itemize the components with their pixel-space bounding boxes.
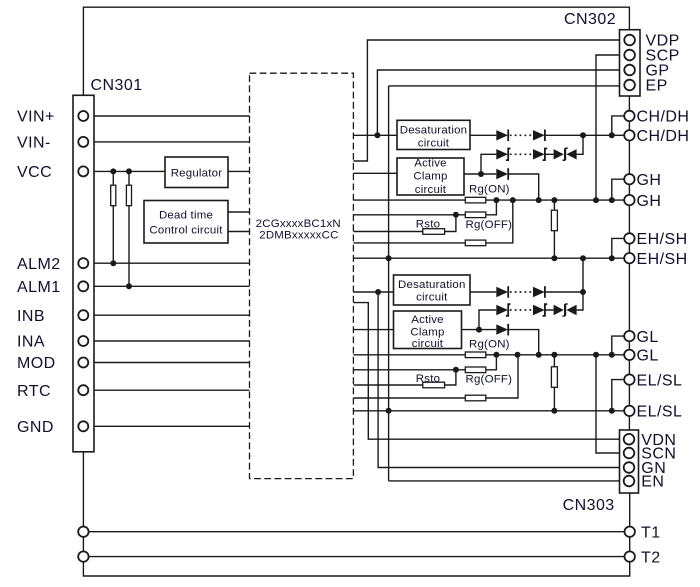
resistor gate shunt ch2 — [551, 367, 557, 388]
wire RTC — [83, 389, 249, 391]
svg-text:Rg(OFF): Rg(OFF) — [466, 374, 513, 386]
wire EN — [389, 480, 620, 482]
svg-text:Rsto: Rsto — [416, 373, 440, 385]
svg-text:ALM1: ALM1 — [17, 279, 61, 296]
wire EL/SL bracket — [612, 380, 630, 411]
svg-text:GL: GL — [637, 348, 659, 365]
svg-text:ALM2: ALM2 — [17, 256, 61, 273]
wire dead time out 2 — [228, 231, 250, 233]
wire Rsto row ch1 — [353, 215, 456, 232]
resistor Rg(OFF) ch2 — [465, 367, 486, 373]
pin circles CN302 — [624, 35, 635, 46]
wire VIN- — [83, 141, 249, 143]
svg-text:Clamp: Clamp — [410, 326, 444, 338]
pin circles CN301 — [78, 111, 88, 121]
svg-text:GH: GH — [637, 193, 662, 210]
svg-text:Control circuit: Control circuit — [149, 225, 223, 237]
resistor Rg(ON) ch1 — [465, 197, 486, 203]
wire EP emitter rail — [389, 86, 620, 481]
connector CN303 — [620, 430, 639, 493]
svg-text:EL/SL: EL/SL — [637, 372, 683, 389]
wire Rsto row ch2 — [353, 370, 456, 385]
zener ch1 a — [496, 149, 510, 161]
wire GND — [83, 425, 249, 427]
svg-text:EL/SL: EL/SL — [637, 404, 683, 421]
svg-text:circuit: circuit — [415, 184, 447, 196]
wire zener row ch2 — [479, 292, 583, 330]
wire T1 — [83, 531, 629, 533]
dotted link desat ch1 — [510, 134, 533, 136]
junction dots ch1 top — [110, 168, 116, 174]
diode desat ch2 b — [533, 286, 545, 298]
svg-text:Active: Active — [411, 314, 443, 326]
wire active clamp ch2 input — [353, 329, 393, 331]
svg-text:Dead time: Dead time — [159, 209, 213, 221]
svg-text:CN302: CN302 — [564, 11, 616, 28]
zener ch2 b — [533, 304, 547, 316]
svg-text:EH/SH: EH/SH — [637, 231, 688, 248]
wire module border bottom — [83, 452, 629, 576]
wire VDN — [353, 303, 619, 440]
wire desaturation ch1 input — [353, 134, 397, 136]
wire active clamp ch2 output — [462, 330, 539, 355]
wire GH row Rg(ON) ch1 — [353, 199, 629, 201]
wire T2 — [83, 556, 629, 558]
zener ch1 b — [533, 149, 547, 161]
svg-text:GL: GL — [637, 329, 659, 346]
dotted link desat ch2 — [510, 291, 533, 293]
resistor Rg(OFF)2 ch1 — [465, 240, 486, 246]
wire Rg(OFF) row ch1 — [353, 200, 496, 215]
wire zener row ch1 — [481, 135, 583, 174]
resistor R302 — [126, 185, 131, 206]
svg-text:CH/DH: CH/DH — [637, 109, 690, 126]
wire Rg shunt ch1 — [553, 200, 555, 258]
wire VDP — [353, 40, 619, 161]
connector CN301 — [73, 95, 94, 452]
resistor Rsto ch2 — [423, 382, 445, 388]
wire Rg(OFF) row ch2 — [353, 355, 496, 370]
connector CN302 — [620, 30, 641, 96]
svg-text:Desaturation: Desaturation — [398, 279, 466, 291]
wire SCN — [596, 355, 620, 453]
wire MOD — [83, 362, 249, 364]
zener pair ch1 — [554, 148, 577, 160]
wire EH/SH row — [353, 257, 629, 259]
wire module border top — [83, 7, 629, 95]
svg-text:Desaturation: Desaturation — [400, 125, 468, 137]
block Active Clamp circuit ch2 — [394, 311, 462, 349]
junction dots ch2 — [375, 289, 381, 295]
zener pair ch2 — [554, 304, 577, 316]
resistor R301 — [111, 185, 116, 206]
wire GL bracket — [612, 336, 630, 355]
dotted link zener ch1 — [510, 153, 533, 155]
zener ch2 a — [496, 304, 510, 316]
svg-text:MOD: MOD — [17, 355, 56, 372]
diode desat ch2 a — [496, 286, 508, 298]
block Desaturation circuit ch2 — [394, 275, 471, 305]
wire GN — [378, 292, 619, 468]
IC dashed outline 2CGxxxxBC1xN — [250, 73, 354, 478]
svg-text:Clamp: Clamp — [413, 171, 447, 183]
pin circles T1 T2 — [78, 527, 88, 537]
wire ALM1 — [83, 285, 249, 287]
svg-text:GH: GH — [637, 172, 662, 189]
diode desat ch1 b — [533, 130, 545, 142]
svg-text:Rg(ON): Rg(ON) — [469, 338, 510, 350]
svg-text:Active: Active — [414, 158, 446, 170]
wire second Rg(OFF) row ch1 — [353, 200, 512, 243]
svg-text:2DMBxxxxxCC: 2DMBxxxxxCC — [259, 230, 338, 242]
wire desaturation ch2 input — [353, 291, 393, 293]
block Desaturation circuit ch1 — [397, 120, 470, 149]
block Regulator — [165, 157, 228, 188]
pin circles right bus — [624, 111, 634, 121]
svg-text:GND: GND — [17, 419, 54, 436]
svg-text:EH/SH: EH/SH — [637, 251, 688, 268]
diode clamp ch1 — [496, 168, 508, 180]
wire GP — [377, 70, 619, 135]
wire VIN+ — [83, 115, 249, 117]
svg-text:CH/DH: CH/DH — [637, 128, 690, 145]
wire desaturation ch1 output row — [470, 134, 629, 136]
svg-text:CN303: CN303 — [563, 497, 615, 514]
svg-text:INA: INA — [17, 334, 45, 351]
wire SCP — [596, 55, 620, 200]
diode desat ch1 a — [496, 130, 508, 142]
dotted link zener ch2 — [510, 309, 533, 311]
wire active clamp ch1 output — [464, 174, 539, 200]
wire ALM2 — [83, 262, 249, 264]
svg-text:circuit: circuit — [412, 338, 444, 350]
wire desaturation ch2 output row — [470, 258, 583, 292]
svg-text:circuit: circuit — [418, 138, 450, 150]
svg-text:Rsto: Rsto — [416, 219, 440, 231]
wire VCC — [83, 170, 249, 172]
resistor Rg(OFF)2 ch2 — [465, 395, 486, 401]
wire INA — [83, 340, 249, 342]
svg-text:VIN-: VIN- — [17, 135, 51, 152]
svg-text:INB: INB — [17, 308, 45, 325]
svg-text:T2: T2 — [641, 549, 661, 566]
svg-text:CN301: CN301 — [91, 77, 143, 94]
svg-text:Rg(ON): Rg(ON) — [469, 184, 510, 196]
svg-text:VCC: VCC — [17, 164, 52, 181]
pin circles CN303 — [624, 434, 635, 445]
resistor Rg(ON) ch2 — [465, 352, 486, 358]
svg-text:EN: EN — [641, 474, 664, 491]
wire Rg shunt ch2 — [553, 355, 555, 411]
wire GL row Rg(ON) ch2 — [353, 354, 629, 356]
wire dead time out 1 — [228, 211, 250, 213]
svg-text:VIN+: VIN+ — [17, 109, 55, 126]
resistor gate shunt ch1 — [551, 210, 557, 231]
block Active Clamp circuit ch1 — [397, 158, 464, 195]
wire EH/SH bracket — [612, 238, 630, 258]
wire CH/DH bracket — [612, 116, 630, 135]
resistor Rsto ch1 — [423, 229, 445, 235]
resistor Rg(OFF) ch1 — [465, 212, 486, 218]
svg-text:T1: T1 — [641, 524, 661, 541]
wire GH bracket — [612, 179, 630, 200]
svg-text:circuit: circuit — [416, 291, 448, 303]
svg-text:EP: EP — [646, 78, 668, 95]
wire EL/SL row — [353, 410, 629, 412]
svg-text:Rg(OFF): Rg(OFF) — [466, 219, 513, 231]
wire second Rg(OFF) row ch2 — [353, 355, 518, 398]
wire right bus EP/CH-DH/GH rail — [628, 96, 630, 430]
svg-text:RTC: RTC — [17, 383, 51, 400]
svg-text:2CGxxxxBC1xN: 2CGxxxxBC1xN — [256, 218, 341, 230]
wire pull-up R301 branch — [112, 171, 114, 263]
wire active clamp ch1 input — [353, 172, 397, 174]
block Dead time Control circuit — [144, 201, 228, 244]
wire pull-up R302 branch — [128, 171, 130, 286]
svg-text:Regulator: Regulator — [171, 167, 223, 179]
diode clamp ch2 — [496, 324, 508, 336]
wire INB — [83, 314, 249, 316]
